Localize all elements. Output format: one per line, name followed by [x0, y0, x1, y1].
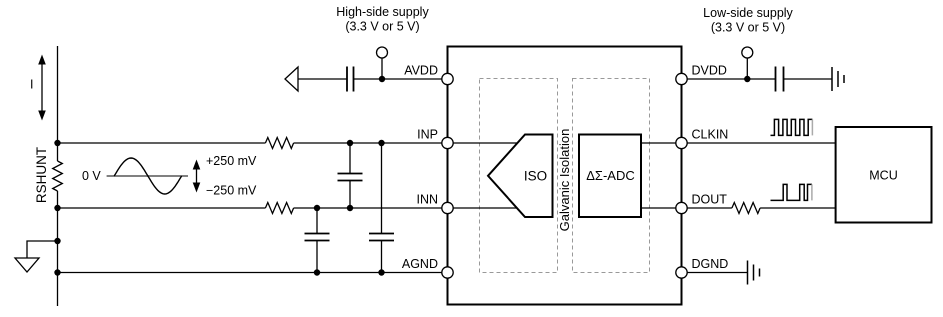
ground (high-side) [15, 241, 58, 272]
dashed isolation region left [480, 79, 558, 273]
svg-text:INN: INN [416, 193, 438, 207]
resistor RSHUNT [53, 161, 63, 191]
iso amplifier ISO [488, 135, 553, 218]
wire AVDD left [298, 78, 347, 80]
svg-text:(3.3 V or 5 V): (3.3 V or 5 V) [345, 20, 419, 34]
data waveform DOUT [771, 184, 812, 200]
sine source baseline [107, 175, 188, 177]
wire supply stub low [746, 58, 748, 79]
wire INN line [58, 207, 266, 209]
svg-text:−250 mV: −250 mV [206, 184, 257, 198]
pin DOUT [676, 202, 687, 213]
capacitor INN to AGND [305, 208, 330, 273]
resistor on INP [265, 138, 293, 149]
capacitor diff (INP-INN) [338, 143, 363, 208]
svg-text:INP: INP [417, 128, 438, 142]
svg-text:I: I [30, 78, 33, 92]
pin AVDD [442, 73, 453, 84]
wire INP to pin [294, 142, 448, 144]
svg-text:0 V: 0 V [82, 169, 101, 183]
wire DVDD to ground [784, 78, 833, 80]
junction AGND cap1 [314, 269, 320, 275]
junction DVDD [744, 76, 750, 82]
supply terminal (high-side) [377, 47, 388, 58]
ground (low-side DGND) [748, 261, 760, 285]
wire INN internal [448, 207, 522, 209]
capacitor INP to AGND [369, 143, 394, 273]
wire supply stub [381, 58, 383, 79]
svg-text:DVDD: DVDD [692, 64, 727, 78]
svg-text:CLKIN: CLKIN [692, 128, 729, 142]
supply terminal (low-side) [742, 47, 753, 58]
wire AVDD right [354, 78, 448, 80]
resistor on INN [265, 203, 293, 214]
junction gnd cap INP [378, 140, 384, 146]
svg-text:MCU: MCU [869, 169, 897, 183]
svg-text:ISO: ISO [524, 169, 547, 184]
junction diff cap top [347, 140, 353, 146]
svg-text:DOUT: DOUT [692, 193, 728, 207]
Galvanic Isolation label [557, 129, 572, 232]
junction INN bus [54, 205, 60, 211]
dashed isolation region right [573, 79, 650, 273]
pin DGND [676, 267, 687, 278]
wire: left vertical bus top [57, 46, 59, 161]
pin CLKIN [676, 137, 687, 148]
capacitor AVDD decoupling [347, 67, 354, 92]
wire CLKIN internal [641, 142, 682, 144]
current arrow I [30, 55, 46, 121]
junction diff cap bottom [347, 205, 353, 211]
svg-text:DGND: DGND [692, 257, 729, 271]
svg-text:Low-side supply: Low-side supply [703, 6, 793, 20]
junction ground branch [54, 238, 60, 244]
swing arrow [193, 160, 201, 193]
wire DOUT to MCU [760, 207, 836, 209]
svg-text:ΔΣ-ADC: ΔΣ-ADC [586, 168, 635, 183]
wire DOUT to resistor [682, 207, 732, 209]
junction AGND bus [54, 269, 60, 275]
svg-text:RSHUNT: RSHUNT [34, 147, 49, 203]
pin DVDD [676, 73, 687, 84]
ground (low-side DVDD) [832, 67, 844, 91]
wire AGND line [58, 272, 448, 274]
svg-text:AVDD: AVDD [404, 64, 438, 78]
wire INP line [58, 142, 266, 144]
wire CLKIN to MCU [682, 142, 836, 144]
wire DVDD [682, 78, 776, 80]
IC box U1 [448, 47, 682, 305]
wire DOUT internal [641, 207, 682, 209]
wire INP internal [448, 142, 522, 144]
pin INP [442, 137, 453, 148]
arrow connector (to high-side supply) [285, 67, 298, 91]
junction INP bus [54, 140, 60, 146]
wire INN to pin [294, 207, 448, 209]
RSHUNT label [34, 147, 49, 203]
pin INN [442, 202, 453, 213]
svg-text:(3.3 V or 5 V): (3.3 V or 5 V) [711, 21, 785, 35]
MCU box [836, 127, 932, 223]
svg-text:AGND: AGND [402, 257, 438, 271]
junction cap INN [314, 205, 320, 211]
capacitor DVDD decoupling [776, 67, 784, 92]
svg-text:+250 mV: +250 mV [206, 154, 257, 168]
wire: left vertical bus bottom [57, 191, 59, 306]
svg-text:High-side supply: High-side supply [336, 5, 429, 19]
junction AVDD [379, 76, 385, 82]
wire DGND [682, 272, 748, 274]
sine wave [114, 158, 181, 194]
junction AGND cap2 [378, 269, 384, 275]
resistor on DOUT [732, 203, 760, 214]
pin AGND [442, 267, 453, 278]
delta-sigma ADC block [579, 135, 641, 218]
clock waveform CLKIN [771, 119, 813, 135]
svg-text:Galvanic Isolation: Galvanic Isolation [557, 129, 572, 232]
